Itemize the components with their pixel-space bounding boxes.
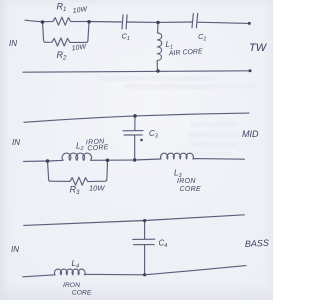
svg-text:CORE: CORE [180, 186, 201, 193]
svg-text:CORE: CORE [87, 144, 109, 152]
svg-text:IN: IN [11, 245, 19, 254]
svg-text:BASS: BASS [245, 238, 270, 249]
svg-text:CORE: CORE [72, 289, 92, 296]
svg-text:IRON: IRON [63, 282, 80, 289]
svg-text:IN: IN [9, 39, 17, 48]
svg-text:10W: 10W [89, 184, 105, 193]
svg-text:IN: IN [12, 138, 20, 147]
svg-text:TW: TW [249, 42, 268, 54]
svg-text:IRON: IRON [177, 178, 196, 185]
svg-text:MID: MID [242, 129, 259, 139]
